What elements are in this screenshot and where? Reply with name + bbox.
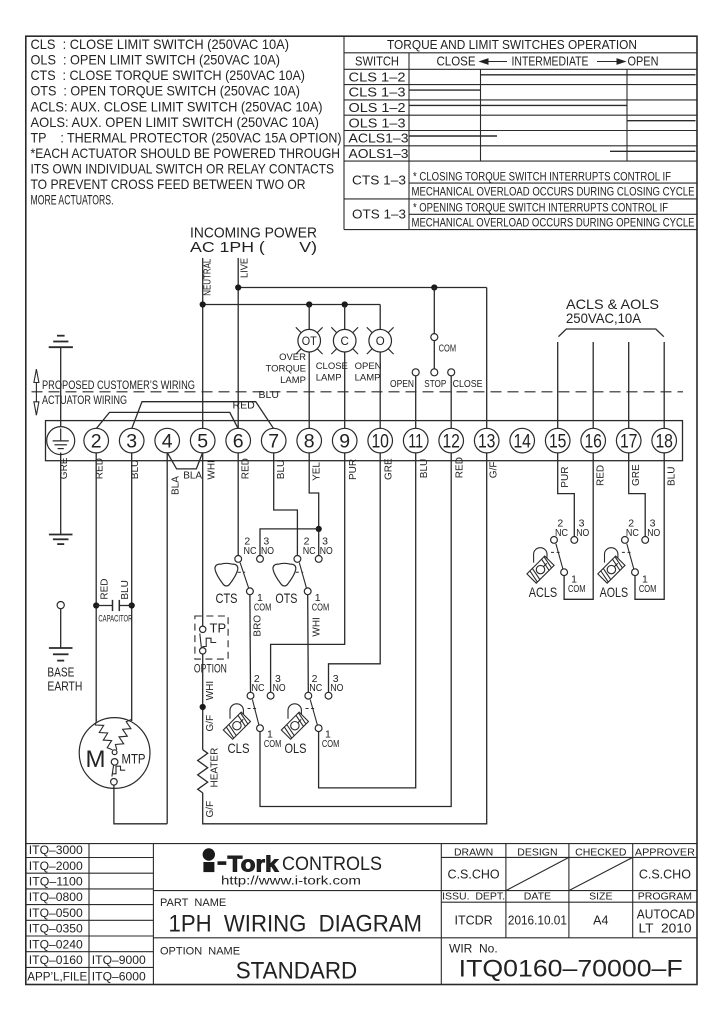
wire t16 down to ACLS COM	[564, 453, 593, 600]
svg-text:12: 12	[442, 431, 460, 453]
svg-text:2016.10.01: 2016.10.01	[508, 914, 567, 928]
svg-text:APP’L,FILE: APP’L,FILE	[27, 970, 87, 984]
svg-text:ITCDR: ITCDR	[454, 914, 492, 928]
svg-text:HEATER: HEATER	[210, 748, 221, 788]
svg-text:COM: COM	[322, 738, 340, 750]
lever	[240, 563, 249, 589]
svg-text:OLS 1–2: OLS 1–2	[349, 101, 406, 115]
button labels	[390, 378, 483, 390]
svg-text:DRAWN: DRAWN	[454, 846, 493, 858]
svg-text:BRO: BRO	[252, 615, 263, 637]
svg-text:SWITCH: SWITCH	[355, 55, 399, 69]
svg-text:PART NAME: PART NAME	[160, 897, 226, 909]
svg-text:BLU: BLU	[419, 459, 430, 478]
limit switch OLS	[281, 673, 343, 756]
lamp C (close lamp)	[331, 305, 358, 429]
wire t15 jog to ACLS NO	[558, 453, 575, 537]
svg-text:14: 14	[513, 431, 531, 453]
wire t9 down jog to CLS NO	[271, 453, 345, 693]
svg-text:CLS 1–3: CLS 1–3	[349, 86, 406, 100]
switch state bars	[409, 75, 696, 152]
svg-text:15: 15	[549, 431, 567, 453]
svg-text:BLA: BLA	[171, 476, 182, 495]
label close lamp	[316, 361, 348, 384]
terminal 10	[368, 428, 393, 453]
svg-text:EARTH: EARTH	[47, 680, 82, 694]
svg-text:4: 4	[162, 431, 173, 453]
svg-text:18: 18	[655, 431, 673, 453]
logo i-tork	[203, 848, 382, 887]
svg-text:CLOSE: CLOSE	[316, 361, 348, 372]
svg-text:RED: RED	[241, 458, 252, 479]
wire NO junction to CTS NO	[260, 529, 319, 556]
svg-text:NC: NC	[252, 682, 265, 694]
svg-text:CTS: CTS	[216, 590, 238, 606]
svg-text:CLOSE: CLOSE	[453, 378, 483, 390]
svg-text:NC: NC	[555, 527, 568, 539]
svg-text:BASE: BASE	[47, 666, 74, 680]
svg-text:PUR: PUR	[560, 467, 571, 488]
terminal 11	[403, 428, 428, 453]
wire blu link terminal3 to terminal7	[132, 402, 274, 429]
svg-text:G/F: G/F	[205, 801, 216, 818]
svg-text:LAMP: LAMP	[280, 375, 306, 386]
lamp OT (over torque lamp)	[296, 305, 323, 429]
wire live (terminal 6 column)	[237, 258, 239, 429]
svg-text:5: 5	[197, 431, 208, 453]
CTS note	[412, 172, 695, 230]
svg-text:MTP: MTP	[122, 752, 146, 767]
svg-text:LIVE: LIVE	[239, 258, 251, 278]
wire 16 drop	[592, 342, 594, 429]
svg-text:TORQUE AND LIMIT SWITCHES OPER: TORQUE AND LIMIT SWITCHES OPERATION	[387, 37, 637, 52]
svg-text:OPEN: OPEN	[355, 361, 382, 372]
svg-text:16: 16	[584, 431, 602, 453]
svg-text:CHECKED: CHECKED	[575, 846, 627, 858]
svg-text:ITS OWN INDIVIDUAL SWITCH OR R: ITS OWN INDIVIDUAL SWITCH OR RELAY CONTA…	[31, 161, 335, 177]
svg-text:CAPACITOR: CAPACITOR	[98, 613, 132, 624]
svg-text:2: 2	[91, 431, 102, 453]
svg-text:WIR No.: WIR No.	[449, 942, 498, 956]
node live junction	[235, 284, 241, 290]
node G/F junction	[200, 704, 206, 710]
svg-text:ITQ–2000: ITQ–2000	[29, 859, 83, 873]
OLS 1-2 bar	[409, 104, 627, 106]
wire ground down	[60, 453, 62, 535]
terminal 6	[226, 428, 251, 453]
svg-text:WHI: WHI	[311, 617, 322, 636]
svg-text:7: 7	[268, 431, 279, 453]
terminal 7	[261, 428, 286, 453]
svg-text:ITQ–3000: ITQ–3000	[29, 843, 83, 857]
terminal 14	[510, 428, 535, 453]
node NO junction	[316, 526, 322, 532]
svg-text:250VAC,10A: 250VAC,10A	[566, 310, 642, 326]
svg-text:NC: NC	[309, 682, 322, 694]
torque and limit switches operation table	[344, 36, 697, 229]
terminal 5	[190, 428, 215, 453]
terminal 17	[616, 428, 641, 453]
terminal 16	[581, 428, 606, 453]
wire CLS COM to terminal 12	[260, 453, 451, 807]
wire t6 down to CTS NC	[237, 453, 239, 556]
wire color labels below strip	[59, 457, 677, 495]
svg-text:* CLOSING TORQUE SWITCH INTERR: * CLOSING TORQUE SWITCH INTERRUPTS CONTR…	[413, 172, 671, 184]
terminal 18	[652, 428, 677, 453]
svg-text:OPTION NAME: OPTION NAME	[160, 946, 240, 958]
svg-text:CLS: CLS	[228, 740, 250, 756]
wire CTS COM to CLS NC (BRO)	[249, 595, 252, 693]
svg-text:A4: A4	[593, 914, 608, 928]
svg-text:ACLS1–3: ACLS1–3	[349, 132, 409, 146]
svg-text:OLS 1–3: OLS 1–3	[349, 116, 406, 130]
checked slash	[569, 857, 633, 890]
svg-text:BLU: BLU	[276, 460, 287, 479]
svg-text:NO: NO	[576, 527, 589, 539]
terminal 15	[545, 428, 570, 453]
svg-text:C.S.CHO: C.S.CHO	[639, 867, 691, 881]
svg-text:ITQ–0160: ITQ–0160	[29, 953, 83, 967]
svg-text:CONTROLS: CONTROLS	[282, 853, 382, 875]
ACLS 1-3 bar	[409, 135, 497, 137]
node lampbus-OT junction	[306, 301, 312, 307]
wire lamp bus	[203, 304, 381, 306]
svg-text:NC: NC	[303, 545, 316, 557]
terminal 9	[332, 428, 357, 453]
svg-text:NC: NC	[244, 545, 257, 557]
svg-text:OPTION: OPTION	[194, 664, 227, 676]
terminal 8	[297, 428, 322, 453]
svg-text:1PH WIRING DIAGRAM: 1PH WIRING DIAGRAM	[169, 911, 423, 938]
svg-text:BLU: BLU	[259, 389, 279, 401]
brace	[558, 329, 663, 337]
svg-text:Tork: Tork	[228, 852, 280, 877]
svg-text:COM: COM	[264, 738, 282, 750]
svg-text:ISSU. DEPT.: ISSU. DEPT.	[442, 891, 505, 903]
thermal protector TP (option)	[195, 616, 228, 659]
svg-text:BLU: BLU	[120, 580, 131, 599]
svg-text:DATE: DATE	[524, 891, 551, 903]
boundary arrows	[34, 369, 39, 415]
svg-text:CLS : CLOSE LIMIT SWITCH (250: CLS : CLOSE LIMIT SWITCH (250VAC 10A)	[31, 36, 290, 52]
terminal 2	[84, 428, 109, 453]
design slash	[506, 857, 569, 890]
svg-text:NO: NO	[330, 682, 343, 694]
svg-text:* OPENING TORQUE SWITCH INTERR: * OPENING TORQUE SWITCH INTERRUPTS CONTR…	[413, 203, 668, 215]
wire heater to terminal 13	[203, 453, 487, 824]
winding right	[115, 720, 131, 750]
close/intermediate divider	[480, 69, 482, 161]
svg-text:CTS : CLOSE TORQUE SWITCH (25: CTS : CLOSE TORQUE SWITCH (250VAC 10A)	[31, 67, 306, 83]
limit switch CLS	[223, 673, 285, 756]
svg-text:LAMP: LAMP	[316, 373, 342, 384]
row dividers	[344, 84, 697, 86]
svg-text:COM: COM	[254, 602, 272, 614]
aux limit switch AOLS	[598, 518, 660, 600]
svg-text:COM: COM	[568, 583, 586, 595]
svg-text:ACLS: ACLS	[529, 584, 558, 600]
torque switch CTS	[215, 536, 274, 614]
svg-text:WHI: WHI	[205, 681, 216, 700]
stop button contact	[433, 341, 435, 369]
svg-text:AUTOCAD: AUTOCAD	[637, 908, 695, 922]
label over torque lamp	[266, 352, 307, 386]
AOLS 1-3 bar	[610, 150, 696, 152]
svg-text:COM: COM	[639, 583, 657, 595]
OLS 1-3 bar	[627, 120, 696, 122]
svg-text:PROPOSED CUSTOMER’S WIRING: PROPOSED CUSTOMER’S WIRING	[42, 380, 195, 392]
svg-text:MORE ACTUATORS.: MORE ACTUATORS.	[31, 192, 114, 208]
svg-text:AOLS: AUX. OPEN LIMIT SWITCH (: AOLS: AUX. OPEN LIMIT SWITCH (250VAC 10A…	[31, 114, 320, 130]
svg-text:NO: NO	[647, 527, 660, 539]
svg-text:MECHANICAL OVERLOAD OCCURS DUR: MECHANICAL OVERLOAD OCCURS DURING OPENIN…	[412, 217, 695, 229]
svg-text:RED: RED	[595, 465, 606, 486]
svg-text:C.S.CHO: C.S.CHO	[448, 867, 500, 881]
svg-text:PUR: PUR	[348, 459, 359, 480]
svg-text:WHI: WHI	[207, 460, 218, 479]
svg-text:ITQ–9000: ITQ–9000	[92, 953, 146, 967]
svg-text:SIZE: SIZE	[589, 891, 612, 903]
svg-text:GRE: GRE	[384, 458, 395, 480]
ground earth symbol	[49, 535, 73, 545]
svg-text:10: 10	[371, 431, 389, 453]
svg-text:ITQ–0240: ITQ–0240	[29, 937, 83, 951]
pushbutton chain COM	[433, 288, 435, 334]
motor M with MTP	[79, 718, 150, 789]
wire t18 down to AOLS COM	[635, 453, 664, 600]
wire 15 drop	[557, 342, 559, 429]
svg-text:M: M	[86, 746, 106, 773]
svg-text:STANDARD: STANDARD	[236, 958, 358, 985]
svg-text:TO PREVENT CROSS FEED BETWEEN: TO PREVENT CROSS FEED BETWEEN TWO OR	[31, 176, 306, 192]
svg-text:OPEN: OPEN	[390, 378, 414, 390]
svg-text:AC 1PH ( V): AC 1PH ( V)	[190, 240, 317, 256]
svg-text:MECHANICAL OVERLOAD OCCURS DUR: MECHANICAL OVERLOAD OCCURS DURING CLOSIN…	[412, 186, 695, 198]
title block lines	[26, 844, 697, 985]
wire 18 drop	[663, 342, 665, 429]
svg-text:17: 17	[620, 431, 638, 453]
svg-text:OLS: OLS	[285, 740, 307, 756]
wire t10 down jog to OLS NO	[329, 453, 381, 693]
svg-text:ITQ–0800: ITQ–0800	[29, 890, 83, 904]
svg-text:CLOSE: CLOSE	[437, 55, 476, 69]
aux limit switch ACLS	[527, 518, 589, 600]
earth above ground terminal	[49, 336, 73, 348]
svg-text:8: 8	[304, 431, 315, 453]
wire t2 down to capacitor and motor	[95, 453, 97, 722]
capacitor C	[93, 600, 135, 611]
wire neutral (terminal 5 column)	[202, 258, 204, 429]
winding left	[95, 720, 112, 750]
svg-text:OTS: OTS	[275, 590, 297, 606]
CLS 1-3 bar	[409, 89, 481, 91]
wire 17 drop	[628, 342, 630, 429]
svg-text:OVER: OVER	[279, 352, 306, 363]
svg-text:http://www.i-tork.com: http://www.i-tork.com	[221, 876, 361, 888]
resistor HEATER	[198, 750, 208, 793]
wire t3 down to capacitor and motor	[131, 453, 133, 722]
lamp O (open lamp)	[367, 305, 394, 429]
terminal 13	[474, 428, 499, 453]
right arrow	[597, 58, 627, 65]
svg-text:ITQ–0350: ITQ–0350	[29, 922, 83, 936]
wire TP to heater	[202, 654, 204, 750]
terminal strip box	[46, 421, 683, 461]
terminal 4	[155, 428, 180, 453]
svg-text:CTS 1–3: CTS 1–3	[352, 174, 406, 188]
terminal 3	[119, 428, 144, 453]
svg-text:RED: RED	[100, 578, 111, 599]
left arrow	[479, 58, 508, 65]
wire t17 jog to AOLS NO	[629, 453, 646, 537]
wire motor bottom to terminal 4	[114, 785, 167, 824]
svg-text:3: 3	[126, 431, 137, 453]
wire bla jumper t4-t5	[167, 453, 203, 469]
left revision column texts	[27, 843, 146, 984]
intermediate/open divider	[626, 69, 628, 161]
torque switch OTS	[273, 536, 333, 614]
wire red link terminal2 to terminal6	[96, 412, 238, 428]
svg-text:*EACH ACTUATOR SHOULD BE POWER: *EACH ACTUATOR SHOULD BE POWERED THROUGH	[31, 145, 341, 161]
switch column divider	[408, 53, 410, 230]
terminal 12	[439, 428, 464, 453]
terminal earth	[47, 427, 75, 455]
svg-text:STOP: STOP	[424, 378, 446, 390]
svg-text:COM: COM	[439, 343, 457, 355]
svg-text:BLU: BLU	[666, 467, 677, 486]
svg-text:DESIGN: DESIGN	[517, 846, 557, 858]
CLS 1-2 bar	[481, 74, 696, 76]
svg-text:RED: RED	[454, 457, 465, 478]
svg-text:GRE: GRE	[631, 464, 642, 486]
svg-text:TP: TP	[210, 621, 227, 636]
svg-text:NC: NC	[626, 527, 639, 539]
base earth stud	[57, 602, 64, 609]
svg-text:OTS 1–3: OTS 1–3	[352, 207, 406, 221]
close button	[448, 369, 455, 376]
svg-text:YEL: YEL	[311, 462, 322, 481]
svg-text:COM: COM	[312, 602, 330, 614]
svg-text:6: 6	[233, 431, 244, 453]
open button	[412, 369, 419, 376]
wire live bus to terminal 13	[238, 287, 487, 289]
svg-text:NO: NO	[273, 682, 286, 694]
svg-text:LT 2010: LT 2010	[639, 921, 692, 935]
svg-text:G/F: G/F	[488, 462, 499, 479]
wire t4 down	[166, 453, 168, 824]
table frame lines	[343, 36, 345, 229]
wire t7 down jog to OTS NC	[274, 453, 298, 556]
wire OLS COM to terminal 11	[319, 453, 416, 788]
svg-text:OLS : OPEN LIMIT SWITCH (250V: OLS : OPEN LIMIT SWITCH (250VAC 10A)	[31, 52, 281, 68]
svg-text:ITQ–1100: ITQ–1100	[29, 875, 83, 889]
wire terminal 13 riser	[486, 288, 488, 429]
svg-text:ITQ–6000: ITQ–6000	[92, 970, 146, 984]
svg-text:BLA: BLA	[183, 470, 202, 481]
svg-text:APPROVER: APPROVER	[635, 846, 695, 858]
svg-text:AOLS: AOLS	[600, 584, 629, 600]
svg-text:LAMP: LAMP	[355, 373, 381, 384]
wire ground terminal riser	[60, 347, 62, 429]
node neutral-lampbus junction	[200, 301, 206, 307]
node lampbus-C junction	[342, 301, 348, 307]
svg-text:NO: NO	[320, 545, 333, 557]
svg-text:INTERMEDIATE: INTERMEDIATE	[512, 55, 589, 69]
base earth symbol	[49, 648, 73, 661]
svg-text:G/F: G/F	[205, 715, 216, 732]
wire OTS COM to OLS NC (WHI)	[307, 595, 310, 693]
svg-text:C: C	[341, 336, 349, 348]
svg-text:CLS 1–2: CLS 1–2	[349, 70, 406, 84]
label open lamp	[355, 361, 382, 384]
legend text block	[31, 36, 342, 208]
svg-text:ITQ0160–70000–F: ITQ0160–70000–F	[459, 956, 683, 983]
svg-text:TORQUE: TORQUE	[266, 364, 306, 375]
svg-text:OTS : OPEN TORQUE SWITCH (250: OTS : OPEN TORQUE SWITCH (250VAC 10A)	[31, 83, 301, 99]
svg-text:9: 9	[339, 431, 350, 453]
svg-text:PROGRAM: PROGRAM	[638, 891, 692, 903]
svg-text:ACLS: AUX. CLOSE LIMIT SWITCH: ACLS: AUX. CLOSE LIMIT SWITCH (250VAC 10…	[31, 99, 323, 115]
svg-text:13: 13	[478, 431, 496, 453]
svg-text:NO: NO	[261, 545, 274, 557]
node com branch junction	[431, 284, 437, 290]
approval headers	[454, 846, 695, 858]
svg-text:ACTUATOR WIRING: ACTUATOR WIRING	[42, 395, 127, 407]
svg-text:ITQ–0500: ITQ–0500	[29, 906, 83, 920]
svg-text:TP : THERMAL PROTECTOR (250: TP : THERMAL PROTECTOR (250VAC 15A OPTIO…	[31, 130, 342, 146]
issue row headers	[442, 891, 692, 903]
wire t5 down to TP	[202, 453, 204, 627]
svg-text:OT: OT	[302, 336, 317, 348]
wire t8 down jog to NO junction	[309, 453, 319, 556]
row labels	[349, 70, 409, 221]
svg-text:AOLS1–3: AOLS1–3	[349, 147, 409, 161]
dashed wiring boundary	[32, 391, 684, 393]
svg-text:11: 11	[408, 431, 423, 453]
svg-text:OPEN: OPEN	[628, 55, 659, 69]
svg-text:O: O	[376, 336, 385, 348]
